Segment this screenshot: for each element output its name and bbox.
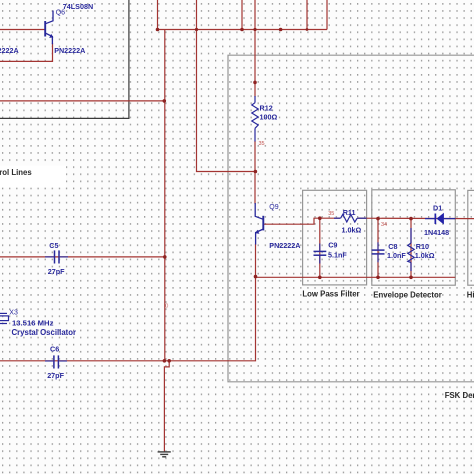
svg-text:27pF: 27pF (47, 371, 64, 380)
svg-text:rol Lines: rol Lines (0, 168, 32, 177)
svg-text:Q6: Q6 (56, 10, 65, 17)
resistor R10 (408, 228, 414, 271)
Low Pass Filter box (303, 190, 367, 285)
wire C5 horizontal y256.9 (0, 256, 165, 258)
capacitor C5 (55, 250, 60, 263)
svg-text:Q9: Q9 (269, 204, 278, 211)
crystal X3 (0, 313, 9, 323)
Q9 emitter arrow (255, 230, 259, 234)
junction R10 bottom (409, 276, 413, 280)
svg-text:27pF: 27pF (48, 267, 65, 276)
svg-text:C8: C8 (388, 242, 397, 251)
Q6 emitter arrow (49, 34, 53, 38)
junction C9 bottom (318, 276, 322, 280)
svg-text:Crystal Oscillator: Crystal Oscillator (12, 328, 77, 337)
svg-text:35: 35 (259, 141, 265, 147)
junction ground branch (169.2,360.8) (167, 359, 171, 363)
svg-text:D1: D1 (433, 204, 442, 213)
svg-text:C5: C5 (49, 241, 58, 250)
wire Q6 emitter to left edge (0, 43, 53, 61)
transistor Q6 (45, 11, 53, 45)
junction T at (255.4,171.5) (254, 170, 258, 174)
svg-text:Envelope Detector: Envelope Detector (373, 291, 441, 300)
svg-text:0: 0 (165, 304, 168, 310)
wire vertical x157.5 from top (157, 0, 159, 30)
svg-text:PN2222A: PN2222A (54, 46, 85, 55)
junction at bus x242 (240, 28, 244, 32)
junction C9 top (318, 216, 322, 220)
svg-text:1.0kΩ: 1.0kΩ (342, 226, 362, 235)
wire R11 to D1 to right edge y218.4 (358, 217, 474, 219)
junction C8 top (376, 217, 380, 221)
resistor R12 (252, 96, 258, 142)
junction at bus x196.5 (195, 28, 198, 31)
wire Q9 base to filter (264, 218, 340, 224)
junction R10 top (409, 217, 413, 221)
capacitor C6 (54, 355, 59, 368)
svg-text:13.516 MHz: 13.516 MHz (12, 318, 54, 327)
junction C5 wire (164.8,256.9) (163, 255, 167, 259)
svg-text:35: 35 (328, 211, 334, 217)
junction at bus left corner x157.5 (156, 28, 160, 32)
svg-text:PN2222A: PN2222A (269, 241, 300, 250)
svg-text:100Ω: 100Ω (260, 113, 278, 122)
svg-text:C9: C9 (328, 241, 337, 250)
svg-text:X3: X3 (9, 309, 18, 316)
wire vertical x327 from top (326, 0, 328, 30)
capacitor C9 (314, 251, 327, 255)
svg-text:FSK Demodulator: FSK Demodulator (445, 391, 474, 400)
wire R12 to Q9 collector (254, 141, 256, 204)
wire bottom rail y277.3 (256, 276, 456, 278)
svg-text:34: 34 (381, 222, 387, 228)
svg-text:1.0nF: 1.0nF (387, 251, 406, 260)
junction at bus x307 (306, 28, 309, 31)
ground (158, 452, 171, 457)
svg-text:R10: R10 (416, 242, 429, 251)
svg-text:C6: C6 (50, 345, 59, 354)
wire vertical x196.5 from top, corner to right at y171.5 (197, 0, 256, 172)
diode D1 (435, 213, 444, 225)
control lines annotation (0, 166, 66, 188)
wire horizontal y100.9 (0, 100, 164, 102)
svg-text:1N4148: 1N4148 (424, 228, 449, 237)
wire vertical x242 from top (241, 0, 243, 30)
svg-text:R11: R11 (343, 208, 356, 217)
wire vertical x255 (R12/Q9 branch) (254, 0, 256, 97)
svg-text:R12: R12 (260, 103, 273, 112)
wire C8 branch vertical (377, 219, 379, 278)
svg-text:5.1nF: 5.1nF (328, 250, 347, 259)
svg-text:1.0kΩ: 1.0kΩ (415, 251, 435, 260)
Envelope Detector box (372, 190, 456, 285)
junction wire end (164.3,100.9) (163, 99, 167, 103)
capacitor C8 (372, 250, 385, 254)
FSK Demodulator section box (228, 55, 474, 382)
junction on R12 branch (253, 81, 257, 85)
svg-text:Low Pass Filter: Low Pass Filter (302, 290, 359, 299)
wire R10 branch vertical (410, 219, 412, 278)
svg-text:Hig: Hig (467, 291, 474, 300)
wire horizontal bus y29.5 (158, 29, 328, 31)
wire Q9 emitter down, corner left at y360.8 (0, 244, 256, 361)
wire vertical x164.8 (164, 30, 166, 361)
subcircuit box (top-left black outline) (0, 0, 129, 118)
wire ground branch (164, 361, 169, 452)
transistor Q9 (255, 203, 263, 245)
wire Q6 base y29.5 (0, 29, 45, 31)
resistor R11 (334, 214, 367, 222)
junction emitter rail (255.5,276.6) (254, 275, 258, 279)
wire C9 branch vertical (319, 218, 321, 277)
junction at bus x280.6 (279, 28, 283, 32)
junction at bus x255 (253, 28, 256, 31)
svg-text:74LS08N: 74LS08N (63, 2, 93, 11)
svg-text:PN2222A: PN2222A (0, 46, 19, 55)
next section box (right edge, clipped) (468, 190, 474, 285)
wire vertical x307 from top (306, 0, 308, 30)
junction C8 bottom (376, 276, 380, 280)
junction C6 wire (164.4,360.8) (163, 359, 167, 363)
